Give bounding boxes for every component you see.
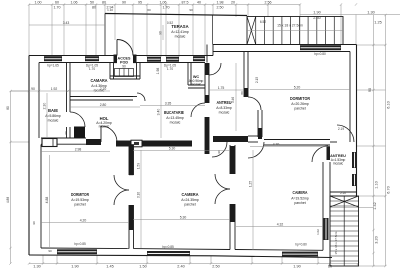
- dim 4.88 rot dormitor bl: [49, 155, 51, 247]
- svg-text:4.88: 4.88: [45, 197, 49, 204]
- camara door arc: [137, 93, 145, 101]
- antreu->dormitor door arc: [248, 97, 261, 110]
- dim rot camera center: [140, 150, 142, 248]
- svg-text:2.15: 2.15: [255, 77, 259, 83]
- dim 4.32 camera right bottom: [236, 226, 323, 228]
- camara bottom wall: [70, 96, 133, 98]
- svg-text:87.5: 87.5: [182, 0, 189, 4]
- svg-text:A=8.33mp: A=8.33mp: [216, 106, 232, 110]
- door hol->camera leaf + arc: [100, 126, 102, 142]
- camera-right east window: [324, 218, 329, 240]
- svg-text:80: 80: [240, 91, 244, 95]
- svg-text:1.42: 1.42: [373, 202, 377, 209]
- window W2: [85, 56, 99, 61]
- acces pod door leaf + arc: [116, 40, 118, 56]
- svg-text:3.43: 3.43: [63, 21, 70, 25]
- baie door arc: [70, 112, 85, 127]
- svg-text:1.45: 1.45: [106, 265, 113, 269]
- double door H arcs: [114, 175, 129, 190]
- svg-text:hp=0.80: hp=0.80: [314, 52, 326, 56]
- svg-text:mozaic: mozaic: [333, 162, 344, 166]
- svg-text:2.20: 2.20: [340, 191, 346, 195]
- svg-text:CAMERA: CAMERA: [182, 192, 199, 197]
- svg-text:90: 90: [31, 87, 35, 91]
- svg-text:hp=0.85: hp=0.85: [162, 245, 174, 249]
- svg-text:parchet: parchet: [294, 201, 305, 205]
- svg-text:mozaic: mozaic: [48, 119, 59, 123]
- svg-text:1.98: 1.98: [156, 68, 160, 75]
- top dimension row 1: [29, 4, 300, 6]
- vent box left: [42, 139, 57, 147]
- left margin dim: [10, 91, 12, 264]
- top dim line right part: [300, 14, 400, 16]
- svg-text:2.98: 2.98: [75, 148, 82, 152]
- svg-text:1.70: 1.70: [163, 6, 170, 10]
- svg-text:90: 90: [189, 8, 193, 12]
- svg-text:90: 90: [48, 249, 52, 253]
- svg-text:1.70: 1.70: [167, 67, 173, 71]
- svg-text:5.20: 5.20: [294, 86, 301, 90]
- svg-text:6.10: 6.10: [387, 101, 391, 108]
- svg-text:1.10: 1.10: [107, 8, 113, 12]
- svg-text:90: 90: [32, 221, 36, 225]
- dim 5.30 camera center: [133, 219, 230, 221]
- camera-right east wall: [322, 162, 324, 250]
- svg-text:BUCATARIE: BUCATARIE: [164, 110, 184, 115]
- svg-text:A=20.26mp: A=20.26mp: [291, 102, 309, 106]
- svg-text:1.59: 1.59: [137, 163, 141, 169]
- svg-text:80: 80: [6, 106, 10, 110]
- svg-text:1.70: 1.70: [89, 67, 95, 71]
- left outer wall: [28, 56, 30, 256]
- svg-text:A=19.53mp: A=19.53mp: [71, 198, 89, 202]
- dim line stair top: [330, 207, 374, 209]
- svg-text:1.25: 1.25: [374, 21, 381, 25]
- svg-text:3.46: 3.46: [231, 97, 235, 103]
- svg-text:3.35: 3.35: [165, 102, 172, 106]
- svg-text:CAMARA: CAMARA: [91, 78, 108, 83]
- svg-text:5.30: 5.30: [169, 147, 176, 151]
- svg-text:1.70: 1.70: [54, 6, 61, 10]
- window W1: [44, 56, 62, 61]
- top wall right part: [213, 44, 357, 46]
- svg-text:ANTREU: ANTREU: [217, 100, 232, 105]
- svg-text:BAIE: BAIE: [48, 108, 58, 113]
- antreu-right bottom wall: [330, 191, 357, 193]
- double door G arcs: [215, 174, 230, 189]
- chimney block: [74, 127, 85, 139]
- right margin dims: [373, 15, 375, 266]
- svg-text:4.32: 4.32: [277, 223, 284, 227]
- svg-text:40: 40: [197, 0, 201, 4]
- svg-text:5.30: 5.30: [180, 216, 187, 220]
- svg-text:6.52: 6.52: [260, 20, 266, 24]
- acces pod right wall: [136, 63, 138, 79]
- svg-text:1.25: 1.25: [249, 181, 253, 187]
- svg-text:1.02: 1.02: [316, 229, 320, 235]
- svg-text:1.92: 1.92: [51, 87, 58, 91]
- svg-text:90: 90: [122, 65, 126, 69]
- svg-text:1.90: 1.90: [293, 265, 300, 269]
- svg-text:1.90: 1.90: [71, 265, 78, 269]
- svg-text:hp=0.85: hp=0.85: [74, 242, 86, 246]
- bottom outer wall: [29, 254, 213, 257]
- svg-text:A=24.35mp: A=24.35mp: [181, 198, 199, 202]
- svg-text:A=19.52mp: A=19.52mp: [291, 197, 309, 201]
- svg-text:CAMERA: CAMERA: [293, 190, 308, 195]
- dim 4.20 dormitor bl: [41, 222, 129, 224]
- window W5: [193, 56, 205, 61]
- right outer wall: [356, 45, 358, 197]
- svg-text:1.98: 1.98: [217, 0, 224, 4]
- svg-text:mozaic: mozaic: [219, 111, 230, 115]
- dim 3.43 top left: [29, 24, 105, 26]
- dim rot 4.85 camera right: [252, 150, 254, 250]
- svg-text:DORMITOR: DORMITOR: [290, 96, 310, 101]
- right wall windows (antreu): [352, 152, 357, 168]
- svg-text:60: 60: [147, 8, 151, 12]
- extension lines top: [28, 5, 30, 56]
- acces pod left wall: [109, 63, 111, 79]
- svg-text:mozaic: mozaic: [99, 125, 110, 129]
- svg-text:3.20: 3.20: [375, 236, 379, 243]
- svg-text:90: 90: [368, 88, 372, 92]
- svg-text:2.19: 2.19: [338, 127, 344, 131]
- svg-text:mozaic: mozaic: [175, 35, 186, 39]
- svg-text:A=5.86mp: A=5.86mp: [45, 114, 61, 118]
- svg-text:4.20: 4.20: [80, 219, 87, 223]
- terasa step vertical: [212, 15, 214, 45]
- outer top wall left part: [29, 55, 213, 57]
- svg-text:15 x 18 x 27.5cm: 15 x 18 x 27.5cm: [334, 231, 338, 254]
- svg-text:60: 60: [55, 0, 59, 4]
- bucatarie door arc: [191, 103, 205, 117]
- svg-text:95: 95: [138, 0, 142, 4]
- dim line baie 90/1.92/2.70: [11, 90, 111, 92]
- svg-text:90: 90: [159, 31, 163, 35]
- svg-text:1.30: 1.30: [367, 11, 374, 15]
- wall F antreu/dormitor: [243, 52, 245, 97]
- dim 5.20 dormitor right: [250, 89, 350, 91]
- svg-text:hp=0.80: hp=0.80: [295, 243, 307, 247]
- door antreu->camera arc: [212, 142, 227, 157]
- window Wb3: [282, 252, 318, 257]
- svg-text:1.06: 1.06: [71, 0, 78, 4]
- svg-text:2.40: 2.40: [177, 265, 184, 269]
- staircase top direction cross: [247, 17, 256, 45]
- vent box mid: [131, 140, 142, 147]
- svg-text:1.00: 1.00: [35, 0, 42, 4]
- svg-text:1.30: 1.30: [33, 265, 40, 269]
- svg-text:1.50: 1.50: [139, 265, 146, 269]
- antreu-right exterior door arc: [337, 125, 354, 142]
- extension lines bottom: [42, 256, 44, 264]
- window Wb1: [57, 249, 97, 254]
- svg-text:3.10: 3.10: [137, 192, 141, 198]
- svg-text:6.70: 6.70: [387, 186, 391, 193]
- acces pod door opening (white): [116, 54, 134, 64]
- svg-text:2.70: 2.70: [100, 87, 107, 91]
- svg-text:2.30: 2.30: [43, 103, 47, 110]
- middle wall A left segment: [41, 137, 86, 139]
- wall C baie right: [66, 63, 68, 112]
- svg-text:90: 90: [122, 0, 126, 4]
- bottom dimension row: [29, 263, 358, 265]
- staircase right cross: [330, 196, 359, 207]
- window W3: [147, 57, 161, 62]
- svg-text:2.56: 2.56: [265, 0, 272, 4]
- svg-text:2.50: 2.50: [212, 265, 219, 269]
- camera-right top wall: [264, 139, 330, 141]
- svg-text:80: 80: [92, 6, 96, 10]
- svg-text:1.75: 1.75: [218, 86, 225, 90]
- terasa top edge: [105, 14, 247, 16]
- svg-text:parchet: parchet: [294, 107, 305, 111]
- dormitor bottom wall dark: [213, 136, 248, 142]
- svg-text:1.90: 1.90: [313, 11, 320, 15]
- svg-text:parchet: parchet: [184, 203, 195, 207]
- dim 2.80 hol: [70, 106, 140, 108]
- svg-text:DORMITOR: DORMITOR: [71, 192, 89, 197]
- staircase top mid line: [247, 30, 343, 32]
- svg-text:4.20: 4.20: [273, 143, 280, 147]
- svg-text:A=12.41mp: A=12.41mp: [171, 30, 189, 34]
- step verticals joining top walls: [206, 45, 208, 63]
- svg-text:1.06: 1.06: [160, 0, 167, 4]
- terasa 90 dim: [162, 25, 164, 40]
- door dormitor->camera arc: [248, 142, 264, 158]
- middle wall A dark segment: [86, 139, 101, 145]
- camera->antreu door arc: [312, 146, 328, 162]
- staircase right: [330, 196, 359, 266]
- dim 3.35 bucatarie: [140, 105, 205, 107]
- dim 4.20 camera right top: [250, 146, 330, 148]
- wall G camera/camera divider: [229, 145, 231, 174]
- svg-text:mozaic: mozaic: [170, 121, 181, 125]
- WC walls: [187, 63, 189, 85]
- svg-text:3.40: 3.40: [157, 109, 161, 116]
- svg-text:TERASA: TERASA: [171, 24, 188, 29]
- dim 5.30 under wall A: [133, 150, 230, 152]
- dim 2.30 rot baie: [46, 93, 48, 137]
- svg-text:0.52: 0.52: [167, 21, 173, 25]
- acces pod bottom wall: [110, 75, 140, 77]
- dim 2.98: [41, 151, 110, 153]
- svg-text:90: 90: [64, 131, 68, 135]
- svg-text:A=13.45mp: A=13.45mp: [166, 116, 184, 120]
- acces pod stair box: [115, 69, 134, 77]
- window W4: [166, 57, 179, 62]
- svg-text:4.88: 4.88: [6, 197, 10, 203]
- wall E bucatarie/antreu: [205, 63, 209, 75]
- dim 1.98 / 3.40 rot: [160, 63, 162, 96]
- svg-text:15 x 18 x 27.5cm: 15 x 18 x 27.5cm: [277, 24, 303, 28]
- dim 1.75 antreu: [209, 89, 244, 91]
- svg-text:mozaic: mozaic: [191, 83, 202, 87]
- svg-text:hp=1.65: hp=1.65: [47, 64, 59, 68]
- svg-text:50: 50: [90, 0, 94, 4]
- terasa left edge: [104, 14, 106, 56]
- window Wb2: [147, 251, 190, 256]
- svg-text:80: 80: [102, 0, 106, 4]
- svg-text:2.80: 2.80: [100, 103, 107, 107]
- window W6: [300, 45, 341, 50]
- WC door arc: [209, 63, 221, 75]
- svg-text:20: 20: [231, 0, 235, 4]
- acces pod door jambs: [114, 55, 118, 64]
- dim rot 3.46 antreu: [235, 63, 237, 131]
- wall H dormitor/camera divider: [128, 144, 130, 175]
- svg-text:parchet: parchet: [74, 203, 85, 207]
- svg-text:2.50: 2.50: [217, 6, 224, 10]
- staircase top: [247, 17, 343, 45]
- F step wall: [257, 110, 259, 137]
- svg-text:1.10: 1.10: [375, 181, 379, 188]
